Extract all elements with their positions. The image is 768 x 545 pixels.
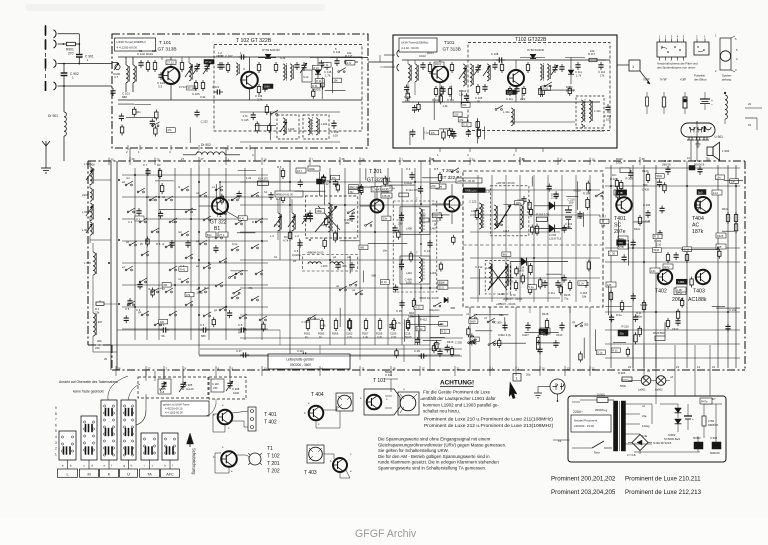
wire seg a (161, 57, 163, 60)
inductor L102 right tunable (463, 64, 465, 86)
key switch AFC (162, 433, 178, 460)
svg-text:61: 61 (432, 158, 436, 162)
capacitor C417 bottom (439, 348, 441, 351)
resistor R423 560 (647, 172, 649, 175)
svg-text:2000A/+g: 2000A/+g (595, 408, 608, 412)
svg-text:L103: L103 (288, 127, 295, 131)
svg-text:09O200 - 3600: 09O200 - 3600 (290, 363, 311, 367)
svg-text:¼ W: ¼ W (643, 78, 649, 82)
power box frame (568, 396, 726, 462)
svg-text:R 217: R 217 (599, 215, 607, 219)
svg-text:28: 28 (342, 157, 346, 161)
key switch TA (141, 433, 158, 460)
transistor T102 tuner (241, 72, 258, 89)
svg-text:R 210: R 210 (621, 325, 629, 329)
svg-text:C 105: C 105 (475, 96, 483, 100)
svg-text:9: 9 (55, 406, 57, 410)
parts cluster tuner right lower (404, 84, 470, 120)
svg-text:50/15: 50/15 (405, 335, 412, 339)
svg-text:26b: 26b (97, 339, 102, 343)
trimmer C905 (182, 381, 184, 384)
svg-text:10.7: 10.7 (297, 169, 303, 173)
svg-text:5: 5 (55, 429, 57, 433)
svg-text:12: 12 (567, 367, 571, 371)
svg-text:4.4222A-00.10: 4.4222A-00.10 (165, 407, 183, 411)
resistor R6 emitter (289, 230, 291, 233)
svg-text:R905/15: R905/15 (708, 423, 719, 427)
svg-text:C 114: C 114 (598, 70, 606, 74)
svg-text:15k: 15k (333, 79, 338, 83)
key switch L (59, 431, 76, 460)
svg-text:C 305: C 305 (494, 320, 502, 324)
svg-text:680: 680 (371, 274, 376, 278)
svg-text:L410: L410 (406, 271, 412, 275)
svg-text:T 402: T 402 (264, 420, 277, 426)
resistor R219 228 (536, 217, 547, 221)
capacitor C40a 230 (401, 212, 403, 215)
svg-text:207e: 207e (614, 229, 626, 235)
IF box internal rails (470, 189, 600, 191)
T401 bias boxes (618, 236, 628, 241)
svg-text:2,10: 2,10 (645, 219, 651, 223)
capacitor C407 56 (523, 196, 525, 199)
capacitor C21x lower (544, 280, 546, 283)
svg-text:M: M (87, 472, 90, 476)
core cross L414 (488, 266, 508, 290)
resistor R215 1k (530, 207, 532, 210)
output cap right (600, 62, 602, 65)
svg-text:C 107: C 107 (225, 54, 233, 58)
transistor T101 tuner (163, 67, 180, 84)
svg-text:Die Spannungswerte sind ohne E: Die Spannungswerte sind ohne Eingangssig… (378, 437, 491, 442)
svg-text:R 412: R 412 (420, 318, 428, 322)
wire right horizontals (605, 167, 740, 169)
svg-text:220: 220 (433, 214, 438, 218)
svg-text:10.95: 10.95 (382, 187, 389, 191)
svg-text:R 1: R 1 (95, 307, 100, 311)
capacitor C261 dark (319, 172, 321, 179)
capacitor C15 bottom (401, 300, 403, 303)
svg-text:schaltet neu hinzu.: schaltet neu hinzu. (423, 409, 460, 414)
svg-text:T401: T401 (614, 216, 626, 222)
svg-text:C 222: C 222 (469, 199, 477, 203)
svg-text:6R03 01- 00.00: 6R03 01- 00.00 (420, 296, 439, 300)
svg-text:C 118: C 118 (604, 114, 612, 118)
svg-text:R423: R423 (642, 169, 649, 173)
resistor h-small mid (420, 218, 429, 222)
subbox IF lower dashed (485, 261, 510, 294)
svg-text:L904: L904 (82, 193, 89, 197)
capacitor C6 C8 bottom (160, 329, 163, 331)
resistor R104 (195, 80, 197, 83)
resistor R901 270 (66, 42, 75, 45)
svg-text:C 13: C 13 (424, 249, 430, 253)
input jacks right (397, 50, 399, 71)
arrow Schubrichtung (187, 433, 194, 444)
value box dark 5u9 (697, 190, 706, 195)
svg-text:k5: k5 (140, 242, 143, 246)
antenna symbol (42, 141, 50, 150)
wire choke down (63, 136, 65, 161)
svg-text:Dr 902: Dr 902 (201, 143, 211, 147)
svg-text:1600: 1600 (406, 281, 412, 285)
tuner box frame right (393, 35, 617, 148)
svg-text:C 5: C 5 (125, 307, 130, 311)
svg-text:e: e (104, 464, 106, 468)
parts cluster IF upper (469, 176, 603, 235)
resistor R434 col (735, 212, 737, 215)
label box UKW-Tuner (115, 38, 156, 51)
inductor L906 (93, 252, 95, 275)
svg-text:14,2: 14,2 (713, 191, 719, 195)
transistor T402 (658, 270, 672, 284)
svg-text:30: 30 (111, 158, 115, 162)
svg-text:2.7.4-B: 2.7.4-B (627, 453, 636, 457)
parts cluster tuner right bottom (430, 105, 503, 143)
svg-text:4x120: 4x120 (186, 387, 194, 391)
resistor R215 lower (569, 280, 571, 283)
choke Dr901 (64, 112, 66, 136)
svg-text:3mV: 3mV (664, 265, 670, 269)
svg-text:R 21: R 21 (441, 330, 447, 334)
T202 bias boxes (436, 184, 446, 189)
svg-text:Si 901: Si 901 (597, 393, 605, 397)
svg-text:T 101: T 101 (159, 40, 172, 46)
pin labels bottom frame (116, 366, 595, 376)
wire jack bus (45, 25, 47, 91)
svg-text:+RB007 - 00.00: +RB007 - 00.00 (503, 297, 523, 301)
svg-text:23: 23 (542, 367, 546, 371)
svg-text:15: 15 (748, 123, 752, 127)
svg-text:0,1µ: 0,1µ (389, 186, 395, 190)
capacitor C108 (219, 62, 221, 65)
resistor R5 top (439, 172, 441, 175)
inductor L101 (126, 65, 128, 83)
wire jack bottom (557, 394, 559, 401)
svg-text:Ansicht auf Oberseite des Tast: Ansicht auf Oberseite des Tastensatzes (59, 380, 118, 384)
svg-text:31.5: 31.5 (439, 285, 445, 289)
svg-text:C413: C413 (556, 333, 563, 337)
wire out right (330, 57, 368, 59)
keyboard digit scale (55, 406, 57, 456)
svg-text:R 903: R 903 (618, 371, 626, 375)
switch field (125, 181, 267, 326)
resistor mid R430 (667, 252, 669, 255)
svg-text:3,3k: 3,3k (200, 95, 206, 99)
svg-text:10: 10 (592, 158, 596, 162)
svg-text:1,2k: 1,2k (443, 104, 449, 108)
svg-text:5000/15: 5000/15 (710, 451, 720, 455)
svg-text:100: 100 (333, 134, 338, 138)
coil junction wires (89, 184, 91, 188)
svg-text:30: 30 (477, 100, 481, 104)
svg-text:T403: T403 (693, 289, 705, 295)
wire tuner rail top (118, 56, 362, 58)
svg-text:5600: 5600 (507, 279, 513, 283)
small parts under T102 (258, 84, 260, 87)
capacitor C5 bottom (129, 298, 131, 301)
svg-text:550: 550 (569, 200, 574, 204)
svg-text:R420: R420 (616, 157, 623, 161)
svg-text:Prominent de Luxe 212 u.Promin: Prominent de Luxe 212 u.Prominent de Lux… (424, 423, 554, 429)
parts cluster output right (652, 174, 743, 337)
svg-text:Sie gelten für Schalterstellun: Sie gelten für Schalterstellung UKW. (378, 448, 449, 453)
svg-text:18k: 18k (582, 295, 587, 299)
svg-text:56: 56 (162, 334, 166, 338)
svg-text:10n: 10n (716, 175, 721, 179)
svg-text:SY320/0,8a/4: SY320/0,8a/4 (664, 437, 681, 441)
svg-text:C 8: C 8 (294, 249, 299, 253)
svg-text:Prominent de Luxe 210 u.Promin: Prominent de Luxe 210 u.Prominent de Lux… (424, 417, 553, 423)
svg-text:C 1: C 1 (136, 217, 141, 221)
svg-text:33: 33 (472, 158, 476, 162)
capacitor C122 gap (221, 62, 223, 65)
capacitor C901 (78, 44, 80, 55)
capacitor C118 (333, 120, 335, 123)
svg-text:19: 19 (558, 439, 562, 443)
resistor R217 10k (600, 219, 609, 223)
svg-text:C402 4,7µ: C402 4,7µ (498, 333, 512, 337)
svg-text:R 21: R 21 (654, 235, 660, 239)
output tab antenna 1 (617, 64, 629, 66)
svg-text:R4: R4 (284, 235, 288, 239)
resistor R214 470 top (399, 193, 409, 197)
IF block dashed box (463, 171, 603, 307)
svg-text:680: 680 (360, 246, 365, 250)
svg-text:C 10x: C 10x (447, 98, 455, 102)
svg-text:R 70: R 70 (510, 293, 516, 297)
svg-text:AC188k: AC188k (688, 297, 707, 303)
svg-text:10k: 10k (590, 49, 595, 53)
svg-text:4,2k: 4,2k (377, 335, 383, 339)
svg-text:T1: T1 (267, 446, 273, 452)
wire lower rail right (510, 121, 575, 123)
speaker driver L1901 (398, 392, 419, 415)
svg-text:14: 14 (697, 365, 701, 369)
antenna jack J1 (45, 26, 47, 36)
svg-text:280/16: 280/16 (662, 163, 671, 167)
svg-text:L413: L413 (503, 229, 510, 233)
svg-text:10n: 10n (612, 173, 617, 177)
switch u-v pair (339, 289, 341, 291)
value box dark 14B0 (676, 279, 687, 284)
svg-text:10n: 10n (383, 249, 388, 253)
resistor R107 (227, 62, 229, 65)
capacitor C903 block (712, 442, 721, 449)
svg-text:R 22: R 22 (415, 306, 421, 310)
parts cluster T1 stage (295, 174, 328, 260)
speaker L901 (707, 147, 713, 156)
svg-text:GFGF Archiv: GFGF Archiv (355, 528, 417, 540)
value box dark 27B (617, 190, 627, 196)
capacitor series right (496, 59, 499, 61)
transistor T201 (371, 200, 384, 213)
resistor R4 base (282, 192, 284, 195)
inductor L101 right (408, 64, 410, 82)
svg-text:Gleichspannungsröhrenvoltmeter: Gleichspannungsröhrenvoltmeter (URV) geg… (378, 442, 506, 447)
inductor L105 vertical right (511, 108, 513, 126)
parts cluster tuner left out (311, 60, 355, 99)
svg-text:U 901: U 901 (715, 135, 724, 139)
svg-text:BA/DS: BA/DS (566, 89, 574, 93)
svg-text:R418: R418 (542, 312, 549, 316)
svg-text:R14 270: R14 270 (258, 177, 269, 181)
value boxes REV (349, 185, 359, 189)
svg-text:47k: 47k (167, 128, 172, 132)
svg-text:R306: R306 (332, 332, 339, 336)
svg-text:+RB007 - 00.00: +RB007 - 00.00 (496, 302, 516, 306)
svg-text:U: U (127, 472, 130, 476)
svg-text:L104: L104 (321, 122, 328, 126)
svg-text:28: 28 (362, 158, 366, 162)
svg-text:34c: 34c (350, 190, 355, 194)
IF subbox divider (463, 244, 603, 246)
wire center verticals (329, 168, 331, 345)
value box dark tuner3 (506, 90, 516, 95)
svg-text:27: 27 (181, 157, 185, 161)
svg-text:56: 56 (139, 49, 143, 53)
svg-text:5F902: 5F902 (693, 436, 701, 440)
labels switch field extra (126, 176, 258, 334)
svg-text:GT 313B: GT 313B (158, 47, 177, 53)
trimmer box C110 C905 (138, 377, 208, 398)
svg-text:C 4: C 4 (406, 167, 411, 171)
svg-text:14B: 14B (677, 288, 682, 292)
capacitor C7 field (147, 168, 149, 171)
svg-text:4,7k: 4,7k (243, 114, 249, 118)
small box bias (296, 168, 306, 173)
lamp ground (697, 140, 699, 144)
pin 19 wires into box (568, 439, 570, 441)
svg-text:R 8: R 8 (156, 242, 161, 246)
capacitor C901 elko (687, 404, 689, 416)
svg-text:R 219 2,2B: R 219 2,2B (536, 213, 549, 217)
svg-text:R42x: R42x (634, 227, 641, 231)
svg-text:T 404: T 404 (311, 392, 324, 398)
svg-text:100: 100 (567, 225, 572, 229)
capacitor C105 variable (196, 63, 198, 66)
resistor R101 right (429, 62, 431, 65)
svg-text:Netzteil Prominent: Netzteil Prominent (574, 419, 597, 423)
phone jack symbol (550, 379, 565, 394)
svg-text:100µ: 100µ (196, 291, 202, 295)
resistor R107b (501, 62, 503, 65)
svg-text:10k: 10k (347, 51, 352, 55)
resistor R101 (147, 60, 149, 63)
parts cluster tuner right mid (522, 82, 575, 100)
svg-text:C 109: C 109 (255, 94, 263, 98)
svg-text:128.45: 128.45 (382, 194, 391, 198)
svg-text:R 214 470: R 214 470 (406, 188, 419, 192)
svg-text:R101: R101 (427, 51, 434, 55)
svg-text:UKW-Tuner(100MHz): UKW-Tuner(100MHz) (117, 40, 146, 44)
svg-text:L05: L05 (607, 283, 612, 287)
svg-text:6: 6 (55, 423, 57, 427)
filter pinout box (657, 42, 686, 57)
svg-text:R 308: R 308 (626, 176, 634, 180)
capacitor C114 out (336, 58, 338, 61)
svg-text:T 401: T 401 (264, 412, 277, 418)
svg-text:L407: L407 (431, 227, 437, 231)
lamp La902 (656, 376, 666, 386)
capacitor ratio right (351, 213, 353, 216)
svg-text:27.12: 27.12 (188, 86, 195, 90)
svg-text:B1c: B1c (207, 233, 212, 237)
svg-text:L 404: L 404 (340, 264, 347, 268)
wire trimmer right leads (229, 371, 231, 380)
filter label box A (275, 191, 303, 197)
svg-text:L 902: L 902 (82, 210, 89, 214)
svg-text:L 906: L 906 (84, 261, 91, 265)
svg-text:L415: L415 (499, 292, 505, 296)
svg-text:22: 22 (592, 367, 596, 371)
svg-text:1102: 1102 (507, 91, 513, 95)
svg-text:FY12: FY12 (179, 85, 186, 89)
svg-text:Schubrichtung: Schubrichtung (192, 448, 197, 475)
svg-text:entfällt der Lautsprecher L190: entfällt der Lautsprecher L1901 dafür (423, 396, 496, 401)
wire bottom rail 355 (199, 354, 460, 356)
svg-text:1: 1 (516, 377, 518, 381)
svg-text:T 102 GT 322B: T 102 GT 322B (236, 38, 272, 44)
parts cluster tuner left bottom (118, 104, 208, 143)
svg-text:p4: p4 (333, 255, 337, 259)
svg-text:runde Klammern gesetzt. Die i: runde Klammern gesetzt. Die in eckigen K… (378, 460, 499, 465)
filter pinout box small (694, 42, 709, 55)
resistor R105 (202, 80, 204, 83)
capacitor C8 emitter (299, 240, 301, 243)
capacitor C112 variable (303, 62, 305, 65)
resistors in lower IF (515, 280, 517, 283)
svg-text:C 30: C 30 (609, 252, 615, 256)
svg-text:m2: m2 (178, 230, 182, 234)
svg-text:19: 19 (628, 365, 632, 369)
svg-text:La901: La901 (638, 388, 646, 392)
svg-text:C 15: C 15 (396, 309, 402, 313)
svg-text:C 212: C 212 (729, 308, 737, 312)
svg-text:38: 38 (642, 157, 646, 161)
node dots T1 (289, 181, 291, 183)
svg-text:OY69 S/AF/30: OY69 S/AF/30 (262, 48, 280, 52)
pin stubs right tuner (439, 148, 441, 152)
svg-text:25: 25 (157, 158, 161, 162)
subbox L410 solid (400, 256, 430, 284)
svg-text:Prominent de Luxe 212,213: Prominent de Luxe 212,213 (625, 489, 702, 496)
text notes paragraph (378, 437, 506, 471)
svg-text:kommen L1902 und L1903 paralle: kommen L1902 und L1903 parallel ge- (423, 402, 500, 407)
value box dark 31a2 (539, 329, 548, 335)
parts cluster lower mid (301, 302, 455, 340)
resistor R433 (667, 318, 669, 321)
svg-text:m4: m4 (150, 198, 154, 202)
svg-text:1,2k: 1,2k (246, 176, 252, 180)
svg-text:TA08/100/7: TA08/100/7 (465, 189, 479, 193)
IF coil pair L105 (283, 64, 285, 80)
svg-text:L23.8-T13: L23.8-T13 (549, 236, 562, 240)
diode bottom center (444, 297, 448, 303)
svg-text:¹⁄₂W: ¹⁄₂W (680, 78, 686, 82)
wire left bottom (93, 351, 117, 353)
resistor R117 right (588, 59, 589, 61)
wire switch verticals (134, 168, 136, 340)
wire bottom pair rails (200, 348, 462, 350)
svg-text:230: 230 (398, 221, 403, 225)
resistor R436 low (621, 300, 623, 303)
parts under T102 right (509, 86, 511, 89)
resistor R905 (702, 416, 706, 426)
capacitor C104 (160, 72, 162, 75)
svg-text:d: d (91, 464, 93, 468)
resistor R3 276 (282, 168, 284, 171)
